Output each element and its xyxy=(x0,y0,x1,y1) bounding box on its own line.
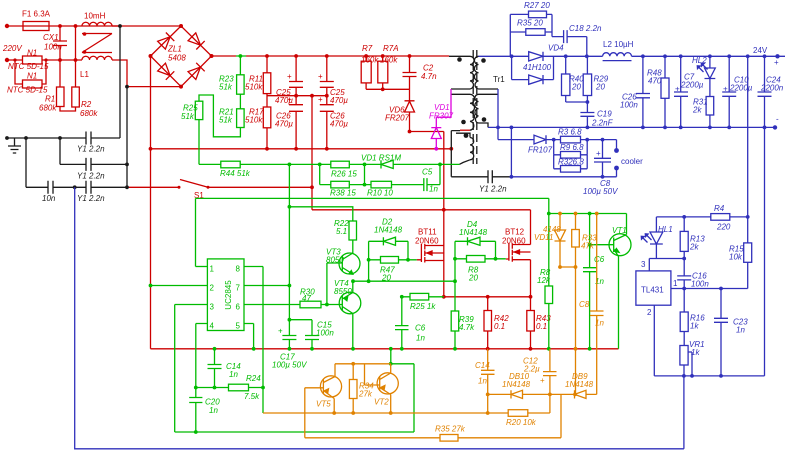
wire NTC parallel links xyxy=(15,60,46,84)
capacitor C14 timing xyxy=(208,349,222,388)
svg-text:4.7k: 4.7k xyxy=(459,323,475,332)
diode VD4 b loop xyxy=(512,56,554,79)
wire minus rail y149 xyxy=(151,148,452,150)
svg-text:C5: C5 xyxy=(422,168,433,177)
capacitor C25 b xyxy=(320,56,334,105)
svg-text:R7: R7 xyxy=(362,44,373,53)
svg-text:Tr1: Tr1 xyxy=(493,75,505,84)
svg-text:51k: 51k xyxy=(219,83,233,92)
svg-text:N1: N1 xyxy=(27,72,37,81)
diode DB10 xyxy=(511,390,523,398)
UC2845 box xyxy=(207,259,244,331)
resistor R8 12k xyxy=(545,286,553,304)
capacitor C8 cooler xyxy=(594,140,611,177)
capacitor C6 comp xyxy=(395,297,409,349)
wire VT2 base xyxy=(365,364,380,385)
wire D4 R8 left vert xyxy=(454,241,456,311)
svg-text:R38 15: R38 15 xyxy=(330,189,356,198)
svg-text:2200µ: 2200µ xyxy=(729,84,753,93)
ground xyxy=(8,138,21,153)
svg-text:10n: 10n xyxy=(42,194,56,203)
capacitor C24 xyxy=(758,56,772,127)
wire VT5 base xyxy=(305,388,324,438)
svg-text:NTC 5D-15: NTC 5D-15 xyxy=(7,86,48,95)
svg-text:12k: 12k xyxy=(537,276,551,285)
svg-text:UC2845: UC2845 xyxy=(224,280,233,310)
diode VD1 FR307 xyxy=(431,128,441,149)
wire black vertical x127 xyxy=(126,87,128,188)
svg-text:ZL1: ZL1 xyxy=(167,45,182,54)
blue junction dots xyxy=(496,54,780,378)
svg-text:R24: R24 xyxy=(246,374,261,383)
svg-text:47: 47 xyxy=(302,294,311,303)
svg-text:1N4148: 1N4148 xyxy=(459,228,488,237)
wire pin6 to R30 xyxy=(244,304,327,306)
svg-text:5408: 5408 xyxy=(168,54,186,63)
wire cooler branch xyxy=(511,127,616,176)
capacitor CX1 xyxy=(53,26,67,60)
svg-text:27k: 27k xyxy=(358,390,373,399)
svg-text:+: + xyxy=(318,95,323,104)
svg-text:NTC 5D-15: NTC 5D-15 xyxy=(8,62,49,71)
svg-text:R10 10: R10 10 xyxy=(367,189,393,198)
wire lower AC rail xyxy=(7,59,82,61)
svg-text:+: + xyxy=(596,149,601,158)
svg-text:8550: 8550 xyxy=(334,287,352,296)
capacitor C10 xyxy=(722,56,736,127)
svg-text:R4: R4 xyxy=(714,204,725,213)
svg-text:1n: 1n xyxy=(209,406,218,415)
svg-text:5.1: 5.1 xyxy=(336,227,347,236)
svg-text:100n: 100n xyxy=(620,101,638,110)
Tr1 clamp winding w2 xyxy=(451,94,475,130)
svg-text:220: 220 xyxy=(716,223,731,232)
capacitor C2 xyxy=(403,56,417,89)
svg-text:3: 3 xyxy=(210,303,215,312)
wire startup tap xyxy=(236,56,246,75)
wire pin2 xyxy=(151,285,208,287)
svg-text:1: 1 xyxy=(210,265,215,274)
wire pin5 xyxy=(244,324,254,349)
orange junction dots xyxy=(332,212,598,415)
wire Ycap mid to output gnd xyxy=(75,187,684,449)
resistor R34 xyxy=(352,364,354,413)
svg-text:2200µ: 2200µ xyxy=(680,81,704,90)
wire Vcc node row xyxy=(289,319,312,321)
svg-text:4.7n: 4.7n xyxy=(421,72,437,81)
wire minus down to fb gnd xyxy=(764,127,766,376)
bridge diode top-right xyxy=(188,33,205,50)
capacitor C15 xyxy=(305,320,319,349)
svg-text:R9 6.8: R9 6.8 xyxy=(560,143,584,152)
wire VD11 R33 join row xyxy=(560,267,576,394)
wire cap midpoint row xyxy=(267,95,327,97)
resistor R26 xyxy=(331,161,350,168)
wire R22 tap xyxy=(289,207,352,221)
bridge diode bottom-right xyxy=(188,63,205,80)
diode VD1 RS1M xyxy=(381,160,393,168)
resistor R10 xyxy=(371,181,392,188)
svg-text:1n: 1n xyxy=(429,185,438,194)
svg-text:1n: 1n xyxy=(478,377,487,386)
wire Y1 to blue xyxy=(492,176,511,178)
wire snubber bottom xyxy=(366,88,409,90)
diode D2 xyxy=(369,237,408,260)
resistor R21 xyxy=(237,109,245,128)
inductor L2 xyxy=(603,53,632,61)
svg-text:680k: 680k xyxy=(80,109,98,118)
resistor R25 xyxy=(195,101,203,119)
Tr1 primary winding w1 xyxy=(449,56,474,89)
wire clamp node xyxy=(436,89,451,128)
resistor R30 xyxy=(300,301,321,308)
svg-text:1n: 1n xyxy=(736,326,745,335)
wire pin1 xyxy=(196,266,208,268)
LED HL1 xyxy=(650,217,663,259)
primary red labels xyxy=(2,10,551,332)
wire R25comp row xyxy=(402,296,444,298)
wire R40 R29 join + C19 xyxy=(566,102,588,127)
capacitor 10n xyxy=(48,181,53,194)
wire drain vertical BT11 xyxy=(443,132,445,297)
wire VD6 to drain xyxy=(410,131,444,133)
svg-text:CX1: CX1 xyxy=(43,33,59,42)
svg-text:2: 2 xyxy=(647,308,652,317)
wire S1 row xyxy=(127,186,312,188)
svg-text:0.1: 0.1 xyxy=(536,322,547,331)
svg-text:1n: 1n xyxy=(229,370,238,379)
wire Y row 2 xyxy=(60,163,127,165)
capacitor Y1 transformer xyxy=(488,170,492,183)
resistor R11 xyxy=(266,56,268,149)
resistor R7A xyxy=(382,56,384,89)
svg-text:1k: 1k xyxy=(691,348,700,357)
primary red junction dots xyxy=(5,24,533,351)
svg-text:41H100: 41H100 xyxy=(523,63,552,72)
svg-text:1n: 1n xyxy=(595,319,604,328)
blue labels xyxy=(517,1,784,357)
svg-text:100n: 100n xyxy=(44,43,62,52)
svg-text:1n: 1n xyxy=(416,334,425,343)
capacitor C19 xyxy=(580,113,594,117)
svg-text:47k: 47k xyxy=(581,242,595,251)
svg-text:100n: 100n xyxy=(316,329,334,338)
svg-text:4: 4 xyxy=(210,322,215,331)
wire CX1 to R1 xyxy=(59,60,61,87)
svg-text:220V: 220V xyxy=(2,44,22,53)
wire VT2 collector link xyxy=(391,349,414,432)
wire pin4 xyxy=(196,324,208,433)
wire R21 bottom to R25 top xyxy=(199,95,240,137)
inductor L1 lower winding xyxy=(82,56,112,60)
svg-text:R3 6.8: R3 6.8 xyxy=(558,128,582,137)
capacitor C5 xyxy=(424,178,427,191)
resistor R39 xyxy=(451,311,459,331)
svg-text:20: 20 xyxy=(468,274,478,283)
svg-text:R26 15: R26 15 xyxy=(331,170,357,179)
wire 0V rail xyxy=(488,126,775,128)
resistor R40 xyxy=(565,56,567,102)
wire bridge plus out xyxy=(212,55,237,57)
transistor VT4 xyxy=(339,292,361,314)
wire AC2 to bridge xyxy=(127,86,181,88)
svg-text:FR107: FR107 xyxy=(528,146,553,155)
fuse F1 xyxy=(23,22,49,31)
wire Y row 3 xyxy=(26,186,127,188)
mosfet BT12 xyxy=(506,243,531,262)
svg-text:Y1 2.2n: Y1 2.2n xyxy=(77,145,105,154)
wire center tap to FR107 xyxy=(497,89,499,140)
svg-text:FR307: FR307 xyxy=(429,112,454,121)
resistor R35 27k xyxy=(440,435,458,442)
svg-text:20: 20 xyxy=(571,83,581,92)
wire R25 bottom to R44 row xyxy=(198,120,200,165)
resistor R33 xyxy=(575,214,577,268)
wire VREF to emitter row xyxy=(262,388,264,414)
capacitor Y1 row3 xyxy=(86,181,91,194)
Tr1 core xyxy=(473,50,477,164)
resistor R24 xyxy=(229,384,249,391)
capacitor C8 opto xyxy=(590,214,604,395)
svg-text:100n: 100n xyxy=(691,280,709,289)
trimmer VR1 xyxy=(680,346,688,366)
svg-text:0.1: 0.1 xyxy=(494,322,505,331)
wire R23-R21 link xyxy=(239,94,241,109)
capacitor C14 sense xyxy=(481,349,495,413)
resistor R42 xyxy=(487,297,489,349)
green labels xyxy=(181,75,627,416)
switch S1 blade xyxy=(180,180,208,188)
svg-text:-: - xyxy=(776,115,779,124)
svg-text:N1: N1 xyxy=(27,49,37,58)
wire BT12 drain xyxy=(530,210,532,245)
svg-text:100µ 50V: 100µ 50V xyxy=(272,361,307,370)
svg-text:2k: 2k xyxy=(689,243,699,252)
resistor R47 xyxy=(369,259,417,261)
resistor R2 xyxy=(72,87,80,107)
svg-text:6: 6 xyxy=(236,303,241,312)
svg-text:2: 2 xyxy=(210,284,215,293)
HL2 arrows xyxy=(697,63,707,72)
svg-text:C6: C6 xyxy=(594,255,605,264)
svg-text:FR207: FR207 xyxy=(385,114,410,123)
resistor R4 xyxy=(656,216,747,218)
svg-text:C14: C14 xyxy=(475,361,490,370)
svg-text:1: 1 xyxy=(673,279,678,288)
svg-text:470µ: 470µ xyxy=(275,120,293,129)
capacitor Y1 row1 xyxy=(86,132,91,145)
wire L1 out top xyxy=(112,25,120,27)
svg-text:1k: 1k xyxy=(690,322,699,331)
resistor R43 xyxy=(530,297,532,349)
svg-text:100µ 50V: 100µ 50V xyxy=(583,187,618,196)
diode FR107 xyxy=(498,135,554,144)
mosfet BT11 xyxy=(417,244,444,263)
wire R2 vertical xyxy=(75,26,77,87)
wire border bottom xyxy=(175,431,414,433)
capacitor C23 xyxy=(714,289,728,376)
svg-text:10mH: 10mH xyxy=(84,12,106,21)
svg-text:470µ: 470µ xyxy=(330,120,348,129)
svg-text:R44 51k: R44 51k xyxy=(220,169,251,178)
svg-text:R20 10k: R20 10k xyxy=(506,418,537,427)
svg-text:8: 8 xyxy=(236,265,241,274)
L1 core mark xyxy=(82,34,112,53)
wire w2 bottom return xyxy=(460,129,470,131)
capacitor C18 xyxy=(552,30,587,56)
capacitor C26 100n xyxy=(636,56,650,127)
svg-text:F1 6.3A: F1 6.3A xyxy=(22,10,51,19)
svg-text:470: 470 xyxy=(648,77,662,86)
wire pin2 vert xyxy=(653,305,655,376)
svg-text:2k: 2k xyxy=(692,106,702,115)
bridge diode top-left xyxy=(157,33,174,50)
NTC N1 lower xyxy=(23,80,43,88)
svg-text:C6: C6 xyxy=(415,324,426,333)
wire L1 out bottom to AC2 xyxy=(112,60,127,87)
capacitor C26 b xyxy=(320,105,334,149)
resistor R32 xyxy=(554,155,588,169)
wire C6 opto vertical xyxy=(589,214,591,349)
transistor VT2 xyxy=(377,373,398,394)
wire DC plus rail xyxy=(246,55,449,57)
transistor VT3 xyxy=(339,253,360,274)
wire pin3 xyxy=(175,305,208,433)
svg-text:VD11: VD11 xyxy=(534,233,553,242)
HL1 arrows xyxy=(641,234,651,243)
svg-text:160k: 160k xyxy=(380,56,398,65)
svg-text:Y1 2.2n: Y1 2.2n xyxy=(77,194,105,203)
svg-text:cooler: cooler xyxy=(621,157,643,166)
svg-text:VT5: VT5 xyxy=(316,400,331,409)
svg-text:R25 1k: R25 1k xyxy=(410,302,436,311)
svg-text:R1: R1 xyxy=(45,95,55,104)
svg-text:R27 20: R27 20 xyxy=(524,1,550,10)
svg-text:510k: 510k xyxy=(245,116,263,125)
Tr1 secondary s1 xyxy=(474,56,498,89)
wire pin7 xyxy=(244,285,289,287)
svg-text:20N60: 20N60 xyxy=(502,237,526,246)
svg-text:+: + xyxy=(318,72,323,81)
resistor R20 xyxy=(508,410,528,417)
wire DC minus vertical xyxy=(150,56,152,349)
transistor VT1 opto xyxy=(609,234,631,256)
resistor R22 xyxy=(349,221,357,240)
resistor R15 xyxy=(747,217,749,289)
wire VT1 base xyxy=(590,244,614,246)
svg-text:R2: R2 xyxy=(81,100,92,109)
svg-text:C19: C19 xyxy=(597,110,612,119)
diode VD6 xyxy=(405,89,415,131)
svg-text:8050: 8050 xyxy=(326,256,344,265)
svg-text:1N4148: 1N4148 xyxy=(565,380,594,389)
wire left vert to row3 xyxy=(25,138,27,187)
wire gate drive row xyxy=(353,280,455,282)
resistor R1 xyxy=(57,87,65,107)
svg-text:C8: C8 xyxy=(579,300,590,309)
wire primary gnd rail xyxy=(151,348,619,350)
svg-text:BT11: BT11 xyxy=(418,228,437,237)
resistor R8 gate xyxy=(455,258,506,260)
orange labels xyxy=(316,225,604,434)
resistor R31 xyxy=(706,97,714,116)
diode VD4 a xyxy=(529,52,543,61)
wire VT3 VT4 base xyxy=(327,263,342,305)
svg-text:2.2nF: 2.2nF xyxy=(591,119,614,128)
svg-text:10k: 10k xyxy=(729,253,743,262)
Tr1 secondary s2 xyxy=(475,94,498,127)
wire R20 to C12 node xyxy=(549,394,551,413)
svg-text:VD1 RS1M: VD1 RS1M xyxy=(361,154,401,163)
wire R1 R2 join xyxy=(60,107,76,112)
resistor R35 20 xyxy=(510,14,552,36)
wire sense row xyxy=(444,296,531,298)
wire pin8 VREF xyxy=(244,267,263,388)
svg-text:R35 20: R35 20 xyxy=(517,19,543,28)
svg-text:51k: 51k xyxy=(181,112,195,121)
wire R44 row xyxy=(199,163,460,165)
wire opto collector row xyxy=(549,213,627,215)
capacitor Y1 row2 xyxy=(86,158,91,171)
svg-text:L2 10µH: L2 10µH xyxy=(603,40,634,49)
svg-text:1N4148: 1N4148 xyxy=(374,226,403,235)
TL431 box xyxy=(636,271,671,305)
wire pin1 row xyxy=(671,288,748,290)
resistor R7 xyxy=(365,56,367,89)
svg-text:R7A: R7A xyxy=(383,44,399,53)
resistor R48 xyxy=(664,56,666,127)
resistor R25 comp xyxy=(410,293,429,300)
resistor R44 xyxy=(221,161,240,168)
wire R4 feed xyxy=(747,56,749,217)
svg-text:7.5k: 7.5k xyxy=(244,392,260,401)
svg-text:470µ: 470µ xyxy=(330,96,348,105)
wire COMP border top xyxy=(196,198,549,266)
wire aux gnd to Y1 2.2n xyxy=(451,131,488,177)
svg-text:Y1 2.2n: Y1 2.2n xyxy=(479,185,507,194)
wire R1R2 to Y row2 xyxy=(59,138,61,164)
LED HL2 xyxy=(705,56,716,96)
capacitor C7 xyxy=(674,56,688,127)
svg-text:+: + xyxy=(723,85,728,94)
svg-text:VT1: VT1 xyxy=(612,226,627,235)
wire black vertical from L1 xyxy=(119,26,121,138)
svg-text:51k: 51k xyxy=(219,116,233,125)
svg-text:+: + xyxy=(287,95,292,104)
wire VT5 collector row xyxy=(335,363,391,365)
wire emitter row xyxy=(263,412,550,414)
svg-text:24V: 24V xyxy=(753,46,768,55)
capacitor C16 xyxy=(677,259,691,289)
capacitor C12 xyxy=(543,349,557,395)
resistor R29 xyxy=(586,56,588,102)
wire drain line xyxy=(312,209,531,211)
svg-text:HL1: HL1 xyxy=(658,225,673,234)
wire half rail down xyxy=(311,96,313,210)
wire fb gnd row xyxy=(654,375,764,377)
resistor R17 xyxy=(263,107,271,128)
svg-text:680k: 680k xyxy=(39,104,57,113)
diode VD11 opto xyxy=(555,214,566,268)
wire Y row 1 xyxy=(7,137,120,139)
svg-text:BT12: BT12 xyxy=(505,228,525,237)
svg-text:L1: L1 xyxy=(80,70,89,79)
wire fb gnd to bottom link xyxy=(683,376,685,449)
resistor R38 xyxy=(331,181,350,188)
svg-text:VT2: VT2 xyxy=(374,398,389,407)
resistor R23 xyxy=(237,75,245,94)
svg-text:2200n: 2200n xyxy=(760,84,784,93)
